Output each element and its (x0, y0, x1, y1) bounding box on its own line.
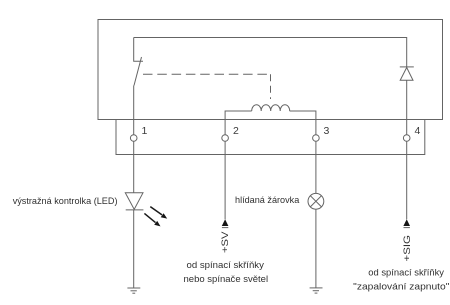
relay case outline (98, 20, 443, 120)
wire internal top bus (134, 38, 407, 67)
ground left (127, 288, 140, 293)
svg-text:+SIG: +SIG (402, 235, 413, 262)
svg-text:+SV: +SV (220, 231, 231, 253)
svg-text:od spínací skříňky: od spínací skříňky (368, 268, 444, 279)
svg-text:4: 4 (415, 125, 421, 137)
dashed actuation link (143, 74, 271, 99)
+SIG arrowhead (403, 219, 410, 226)
+SV arrowhead (222, 219, 229, 226)
wire LED to ground (133, 210, 135, 288)
+SV label (220, 228, 231, 253)
wire switch to pin 1 (133, 86, 135, 135)
LED light emission arrows (144, 207, 167, 227)
pin 2 terminal (222, 135, 229, 142)
wire pin 1 to LED (133, 141, 135, 193)
switch fixed contact (134, 38, 143, 62)
svg-text:"zapalování zapnuto": "zapalování zapnuto" (353, 282, 449, 293)
wire lamp to ground (315, 209, 317, 288)
svg-text:výstražná kontrolka (LED): výstražná kontrolka (LED) (13, 196, 118, 207)
LED D2 (125, 193, 143, 210)
wire pin 2 to +SV arrow (224, 141, 226, 219)
relay coil K1 (252, 105, 290, 111)
+SIG label (402, 228, 413, 262)
wire diode to pin 4 (406, 80, 408, 134)
svg-text:3: 3 (324, 125, 330, 137)
svg-text:od spínací skříňky: od spínací skříňky (187, 260, 265, 271)
pin 4 terminal (403, 135, 410, 142)
wire pin 3 to lamp (315, 141, 317, 193)
svg-text:2: 2 (233, 125, 239, 137)
svg-text:1: 1 (142, 125, 148, 137)
pin 3 terminal (313, 135, 320, 142)
svg-text:nebo spínače světel: nebo spínače světel (184, 274, 269, 285)
connector strip (116, 120, 425, 155)
svg-text:hlídaná žárovka: hlídaná žárovka (235, 195, 300, 206)
pin 1 terminal (130, 135, 137, 142)
lamp (hlidana zarovka) (308, 193, 324, 209)
ground right (310, 288, 323, 293)
switch blade S1 (134, 57, 142, 86)
wire coil right lead (290, 111, 316, 135)
wire pin 4 to +SIG arrow (406, 141, 408, 219)
wire coil left lead (225, 111, 252, 135)
diode D1 (400, 67, 414, 80)
